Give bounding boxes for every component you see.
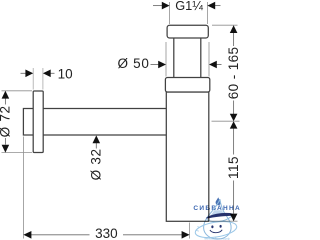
splash dashes (196, 227, 200, 232)
svg-text:10: 10 (58, 67, 73, 82)
trap body cup (166, 92, 209, 221)
svg-text:115: 115 (226, 156, 240, 179)
dimension 60-165 (right, rotated) (226, 25, 241, 121)
face (211, 225, 213, 228)
wire: extension lines of G1 1/4 dim (170, 2, 208, 24)
svg-text:60 - 165: 60 - 165 (226, 47, 240, 100)
svg-text:Ø 50: Ø 50 (117, 56, 149, 71)
wall flange escutcheon (33, 91, 43, 153)
cap brim (207, 217, 231, 222)
wire: extension line left wall (330 dim, x=23.4) (22, 137, 24, 239)
svg-text:Ø 72: Ø 72 (0, 105, 13, 137)
beret hat (207, 213, 233, 218)
wire: extension ticks of 10 dim (33, 68, 43, 90)
wall pipe (horizontal inlet tube) (23, 109, 166, 136)
dimension 115 (right, rotated) (226, 121, 241, 221)
cap nut (G1 1/4 connection) (167, 25, 208, 38)
dimension 10 (flange thickness) (21, 67, 73, 82)
drop neck shading below text (210, 210, 225, 216)
wire: extension lines of 60-165 and 115 dims (210, 25, 240, 221)
dimension 330 (bottom) (23, 226, 189, 240)
watermark logo (drop mascot + text) (193, 197, 241, 240)
riser pipe (174, 39, 201, 78)
dimension diameter 72 (flange, rotated) (0, 91, 13, 153)
svg-text:Ø 32: Ø 32 (88, 148, 103, 180)
wire: extension lines of diameter 72 dim (2, 91, 33, 153)
wire: extension lines of diameter 50 dim (166, 42, 209, 77)
dimension diameter 32 (pipe, rotated) (88, 135, 103, 180)
wire: extension line trap axis (330 dim, x=189.6) (189, 223, 191, 239)
dimension diameter 50 (trap body) (117, 56, 221, 71)
small drop above text (216, 197, 221, 205)
big drop outline (204, 199, 232, 239)
trap top nut (165, 78, 209, 93)
svg-text:330: 330 (95, 226, 118, 240)
svg-text:G1¼: G1¼ (175, 0, 203, 13)
swoosh ring (194, 219, 238, 240)
dimension G1 1/4 (top thread) (153, 0, 221, 13)
